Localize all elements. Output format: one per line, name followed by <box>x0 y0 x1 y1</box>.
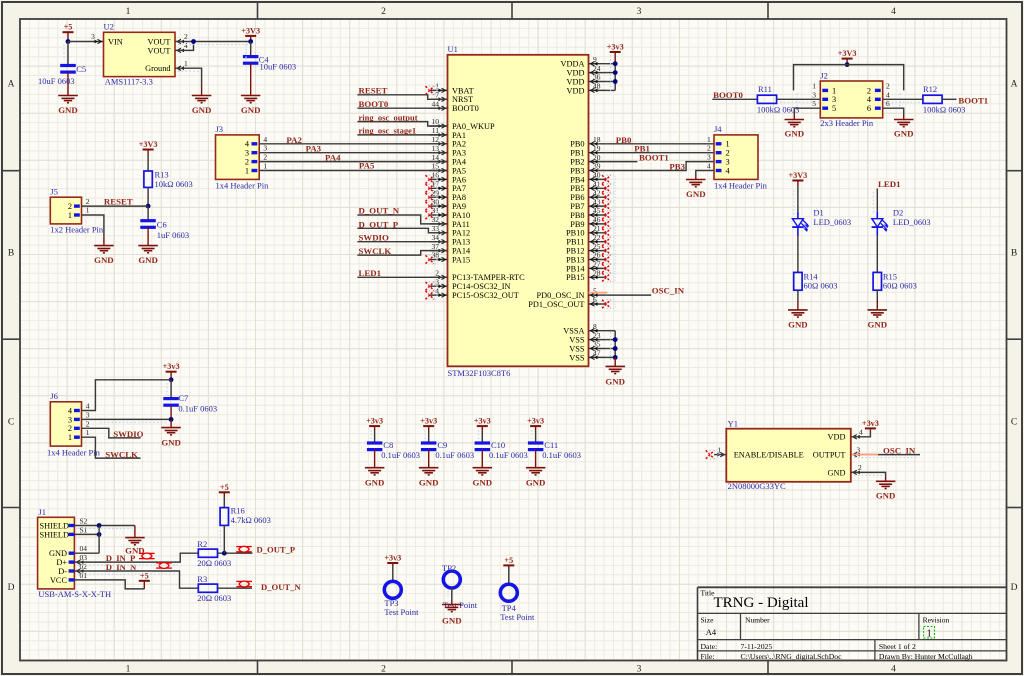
svg-text:C5: C5 <box>76 64 86 74</box>
net label BOOT1 (U1) <box>639 153 669 163</box>
svg-text:File:: File: <box>701 652 715 661</box>
wire BOOT0 to R11 <box>712 98 757 100</box>
wire Y1 VDD to +3v3 <box>851 428 871 437</box>
net label D_OUT_N (U1) <box>359 206 400 216</box>
svg-text:5: 5 <box>812 99 816 108</box>
U1 pin 20 PB2 <box>570 153 606 167</box>
svg-text:20Ω 0603: 20Ω 0603 <box>197 593 231 603</box>
value 1x4 Header Pin (J4) <box>714 180 768 190</box>
U1 pin 29 PA8 <box>426 188 467 202</box>
svg-text:3: 3 <box>263 144 267 153</box>
power +3v3 (U1 VDD) <box>607 43 624 64</box>
power +3v3 (C10) <box>474 417 491 431</box>
svg-text:PA6: PA6 <box>452 175 466 184</box>
net label PA4 <box>325 153 341 163</box>
resistor R15 <box>873 271 917 290</box>
svg-text:ENABLE/DISABLE: ENABLE/DISABLE <box>734 451 804 460</box>
svg-text:C: C <box>8 418 14 428</box>
svg-text:BOOT1: BOOT1 <box>958 96 988 106</box>
test point TP2 <box>442 563 478 610</box>
U1 pin 5 PD0_OSC_IN <box>537 286 607 300</box>
diode D2 <box>872 189 931 236</box>
svg-text:R2: R2 <box>197 539 207 549</box>
svg-text:40: 40 <box>593 171 601 180</box>
svg-text:A: A <box>1011 80 1018 90</box>
svg-text:2: 2 <box>184 32 188 41</box>
ground J2 pin5 <box>785 115 805 139</box>
wire PA3 <box>259 152 447 154</box>
svg-text:GND: GND <box>828 468 846 477</box>
U1 pin 16 PA6 <box>426 171 467 185</box>
svg-text:33: 33 <box>432 224 440 233</box>
svg-text:SWDIO: SWDIO <box>359 233 389 243</box>
svg-text:1x4 Header Pin: 1x4 Header Pin <box>47 448 101 458</box>
ground C4 <box>241 96 261 115</box>
U1 pin 1 VBAT <box>426 82 474 96</box>
svg-text:+3V3: +3V3 <box>838 49 857 58</box>
value 2N08000G33YC <box>728 481 786 491</box>
svg-text:3: 3 <box>637 665 642 675</box>
net label PA2 <box>286 135 302 145</box>
svg-text:6: 6 <box>593 295 597 304</box>
U1 pin 41 PB5 <box>570 180 615 194</box>
svg-text:PB0: PB0 <box>570 140 584 149</box>
compile diff marks <box>64 45 920 599</box>
svg-text:Drawn By: Hunter McCullagh: Drawn By: Hunter McCullagh <box>879 652 973 661</box>
U1 pin 48 VDD <box>567 82 607 96</box>
svg-text:46: 46 <box>593 215 601 224</box>
wire PA5 <box>259 170 447 172</box>
highlight OSC_IN (PD0) <box>589 292 608 294</box>
wire R11 to J2 pin3 <box>777 98 821 100</box>
svg-text:GND: GND <box>785 129 805 139</box>
wire J4 pin4 to gnd <box>696 171 714 175</box>
svg-text:Date:: Date: <box>701 642 718 651</box>
wire PB3 to J4 <box>606 162 715 171</box>
svg-text:RESET: RESET <box>359 86 388 96</box>
wire PB1 to J4 <box>606 152 715 154</box>
svg-text:3: 3 <box>856 445 860 454</box>
svg-text:R11: R11 <box>758 84 772 94</box>
svg-text:PD1_OSC_OUT: PD1_OSC_OUT <box>528 300 584 309</box>
svg-text:14: 14 <box>432 153 440 162</box>
U1 pin 14 PA4 <box>430 153 467 167</box>
net label SWDIO (U1) <box>359 233 389 243</box>
designator J6 <box>50 391 58 401</box>
svg-text:10uF 0603: 10uF 0603 <box>260 62 297 72</box>
svg-text:LED_0603: LED_0603 <box>813 217 851 227</box>
U1 pin 34 PA13 <box>430 233 470 247</box>
power +3V3 (R13) <box>139 140 158 155</box>
svg-text:+3v3: +3v3 <box>474 417 491 426</box>
power +3v3 (C7) <box>163 362 180 380</box>
svg-text:36: 36 <box>593 73 601 82</box>
resistor R11 <box>757 84 799 115</box>
svg-text:20: 20 <box>593 153 601 162</box>
usb connector J1 <box>38 517 88 589</box>
svg-text:3: 3 <box>726 158 730 167</box>
value 1x4 Header Pin (J3) <box>216 180 270 190</box>
U1 pin 43 PB7 <box>570 197 615 211</box>
net label LED1 (U1) <box>359 268 382 278</box>
net label PB1 <box>634 144 650 154</box>
svg-text:D_OUT_P: D_OUT_P <box>359 219 399 229</box>
svg-text:+3v3: +3v3 <box>607 43 624 52</box>
svg-text:42: 42 <box>593 188 601 197</box>
resistor R13 <box>144 155 193 189</box>
U1 pin 38 PA15 <box>426 251 471 265</box>
U1 pin 40 PB4 <box>570 171 615 185</box>
svg-text:PA13: PA13 <box>452 238 470 247</box>
svg-text:1x4 Header Pin: 1x4 Header Pin <box>216 180 270 190</box>
capacitor C11 <box>528 431 581 468</box>
U1 pin 36 VDD <box>567 73 607 87</box>
ground C11 <box>526 468 546 488</box>
svg-text:4: 4 <box>886 90 890 99</box>
U1 pin 21 PB10 <box>566 224 615 238</box>
resistor R3 <box>197 574 231 603</box>
junction R16/R2 <box>222 551 227 556</box>
svg-text:PC15-OSC32_OUT: PC15-OSC32_OUT <box>452 291 519 300</box>
wire SWCLK to PA14 <box>357 251 447 256</box>
power +3v3 (C8) <box>366 417 383 431</box>
U1 pin 44 BOOT0 <box>430 99 479 113</box>
svg-text:VDD: VDD <box>567 86 585 95</box>
net label ring_osc_output <box>359 112 418 122</box>
svg-text:VDD: VDD <box>567 77 585 86</box>
svg-text:1x4 Header Pin: 1x4 Header Pin <box>714 180 768 190</box>
svg-text:10uF 0603: 10uF 0603 <box>38 76 75 86</box>
wire R15 to gnd <box>876 290 878 301</box>
power +3v3 (Y1) <box>862 419 879 431</box>
wire J6 pin3 to C7 <box>82 418 172 420</box>
svg-text:TP2: TP2 <box>442 563 456 573</box>
svg-text:3: 3 <box>86 410 90 419</box>
svg-text:GND: GND <box>241 105 261 115</box>
net label ring_osc_stage1 <box>359 126 417 136</box>
power +5 (R16) <box>219 483 230 497</box>
net label D_OUT_N <box>261 582 301 592</box>
net label RESET (J5) <box>104 197 133 207</box>
value 1x2 Header Pin <box>50 225 104 235</box>
svg-text:100kΩ 0603: 100kΩ 0603 <box>757 105 799 115</box>
junction +5 node <box>66 39 71 44</box>
svg-text:OSC_IN: OSC_IN <box>883 445 916 455</box>
wire Y1 GND <box>851 463 886 477</box>
ground C9 <box>419 468 439 488</box>
wire R12 to BOOT1 <box>942 98 956 100</box>
svg-text:43: 43 <box>593 197 601 206</box>
designator U2 <box>104 22 114 32</box>
svg-text:+5: +5 <box>504 556 513 565</box>
U1 pin 13 PA3 <box>430 144 466 158</box>
wire R2 to D_OUT_P <box>218 552 253 554</box>
svg-text:2: 2 <box>435 269 439 278</box>
svg-text:1: 1 <box>717 445 721 454</box>
svg-text:GND: GND <box>868 320 888 330</box>
svg-text:+5: +5 <box>220 483 229 492</box>
svg-text:+5: +5 <box>140 571 149 580</box>
svg-text:PA5: PA5 <box>452 166 466 175</box>
svg-text:SWCLK: SWCLK <box>359 246 392 256</box>
svg-text:Y1: Y1 <box>728 419 738 429</box>
net label D_OUT_P <box>257 545 296 555</box>
capacitor C6 <box>140 206 189 246</box>
svg-text:11: 11 <box>432 126 439 135</box>
svg-text:100kΩ 0603: 100kΩ 0603 <box>923 105 965 115</box>
ground C5 <box>58 96 78 115</box>
svg-text:44: 44 <box>432 99 440 108</box>
net label D_IN_P <box>106 553 136 563</box>
U1 pin 6 PD1_OSC_OUT <box>528 295 615 309</box>
voltage regulator U2 <box>91 32 188 77</box>
net label LED1 (D2) <box>878 179 901 189</box>
designator Y1 <box>728 419 738 429</box>
svg-text:R13: R13 <box>155 170 169 180</box>
svg-text:7-11-2025: 7-11-2025 <box>741 642 773 651</box>
svg-text:GND: GND <box>473 477 493 487</box>
junction S1 <box>97 532 102 537</box>
svg-text:PB6: PB6 <box>570 193 584 202</box>
svg-text:PB15: PB15 <box>566 273 584 282</box>
svg-text:2: 2 <box>707 144 711 153</box>
svg-text:24: 24 <box>593 64 601 73</box>
svg-text:PA15: PA15 <box>452 255 470 264</box>
svg-text:+5: +5 <box>64 23 73 32</box>
svg-text:GND: GND <box>526 477 546 487</box>
no-ERC Y1 pin1 <box>706 450 718 459</box>
svg-text:Number: Number <box>745 615 770 624</box>
svg-text:U1: U1 <box>448 44 458 54</box>
wire D1 to R14 <box>797 236 799 273</box>
U1 pin 9 VDDA <box>561 55 607 69</box>
U1 pin 39 PB3 <box>570 162 606 176</box>
svg-text:GND: GND <box>49 549 67 558</box>
svg-text:PC14-OSC32_IN: PC14-OSC32_IN <box>452 282 511 291</box>
svg-text:2: 2 <box>263 153 267 162</box>
diff pair mark D_IN_N <box>156 563 172 569</box>
wire SWDIO to PA13 <box>357 241 447 243</box>
U1 pin 4 PC15-OSC32_OUT <box>426 286 519 300</box>
net label RESET (U1) <box>359 86 388 96</box>
svg-text:4: 4 <box>184 41 188 50</box>
wire BOOT0 to U1 <box>357 107 447 109</box>
svg-text:21: 21 <box>593 224 601 233</box>
wire J1 shield bus <box>98 526 100 554</box>
svg-text:VDDA: VDDA <box>561 60 585 69</box>
junction +3V3 node <box>248 39 253 44</box>
wire PB0 to J4 <box>606 143 715 145</box>
wire ring_osc_output <box>357 122 447 126</box>
svg-text:PA7: PA7 <box>452 184 466 193</box>
svg-text:PB4: PB4 <box>570 175 585 184</box>
svg-text:4: 4 <box>86 402 90 411</box>
power +5 (TP4) <box>503 556 514 569</box>
svg-text:C11: C11 <box>544 440 558 450</box>
svg-text:2: 2 <box>245 158 249 167</box>
junction RESET node <box>146 204 151 209</box>
svg-text:1x2 Header Pin: 1x2 Header Pin <box>50 225 104 235</box>
svg-text:3: 3 <box>707 153 711 162</box>
net label BOOT1 (R12) <box>958 96 988 106</box>
designator J1 <box>38 507 46 517</box>
net label SWCLK (J6) <box>105 449 138 459</box>
ground C8 <box>365 468 385 488</box>
svg-text:2: 2 <box>68 202 72 211</box>
svg-text:VDD: VDD <box>828 433 846 442</box>
svg-text:BOOT0: BOOT0 <box>359 99 389 109</box>
svg-text:GND: GND <box>192 105 212 115</box>
svg-text:J5: J5 <box>50 187 58 197</box>
U1 pin 32 PA11 <box>430 215 470 229</box>
U1 pin 22 PB11 <box>566 233 615 247</box>
svg-text:19: 19 <box>593 144 601 153</box>
svg-text:20Ω 0603: 20Ω 0603 <box>197 558 231 568</box>
svg-text:1: 1 <box>86 206 90 215</box>
svg-text:60Ω 0603: 60Ω 0603 <box>883 281 917 291</box>
ground TP2 <box>442 600 462 626</box>
wire RESET to NRST <box>357 95 447 100</box>
wire VOUT pin2 <box>175 41 251 43</box>
capacitor C5 <box>38 42 86 96</box>
svg-text:PA0_WKUP: PA0_WKUP <box>452 122 495 131</box>
svg-text:PA2: PA2 <box>452 140 466 149</box>
svg-text:0.1uF 0603: 0.1uF 0603 <box>381 450 420 460</box>
svg-text:SHIELD: SHIELD <box>40 530 70 539</box>
svg-text:C10: C10 <box>491 440 505 450</box>
U1 pin 33 PA12 <box>430 224 470 238</box>
svg-text:PA14: PA14 <box>452 247 471 256</box>
U1 pin 31 PA10 <box>426 206 471 220</box>
svg-text:C: C <box>1011 418 1017 428</box>
wire SWDIO stub <box>82 428 141 438</box>
svg-text:3: 3 <box>245 149 249 158</box>
svg-text:27: 27 <box>593 260 601 269</box>
svg-text:J1: J1 <box>38 507 46 517</box>
svg-text:D: D <box>8 583 15 593</box>
svg-text:D_OUT_N: D_OUT_N <box>359 206 400 216</box>
svg-text:2N08000G33YC: 2N08000G33YC <box>728 481 786 491</box>
capacitor C8 <box>367 431 420 468</box>
svg-text:USB-AM-S-X-X-TH: USB-AM-S-X-X-TH <box>38 589 111 599</box>
svg-text:OUTPUT: OUTPUT <box>813 451 846 460</box>
svg-text:47: 47 <box>593 349 601 358</box>
wire SWCLK stub <box>82 437 141 458</box>
svg-text:4: 4 <box>891 665 896 675</box>
svg-text:4: 4 <box>263 135 267 144</box>
designator J5 <box>50 187 58 197</box>
svg-text:0.1uF 0603: 0.1uF 0603 <box>178 404 217 414</box>
svg-text:SHIELD: SHIELD <box>40 521 70 530</box>
wire Y1 OUTPUT <box>851 445 920 454</box>
wire PA2 <box>259 143 447 145</box>
U1 pin 7 NRST <box>430 91 474 105</box>
svg-text:37: 37 <box>432 242 440 251</box>
svg-text:NRST: NRST <box>452 95 473 104</box>
value STM32F103C8T6 <box>448 368 511 378</box>
svg-text:1: 1 <box>726 140 730 149</box>
net label BOOT0 (U1) <box>359 99 389 109</box>
svg-text:+3V3: +3V3 <box>789 171 808 180</box>
svg-text:C9: C9 <box>437 440 447 450</box>
junction C7 top <box>169 377 174 382</box>
junction C7 bottom <box>169 417 174 422</box>
svg-text:TRNG - Digital: TRNG - Digital <box>714 595 809 611</box>
svg-text:2: 2 <box>726 149 730 158</box>
svg-text:PA12: PA12 <box>452 229 470 238</box>
svg-text:D_OUT_P: D_OUT_P <box>257 545 296 555</box>
svg-text:60Ω 0603: 60Ω 0603 <box>804 281 838 291</box>
svg-text:A: A <box>8 80 15 90</box>
svg-text:1: 1 <box>68 433 72 442</box>
wire VDD bus <box>606 61 617 90</box>
svg-text:2: 2 <box>86 197 90 206</box>
svg-text:5: 5 <box>593 286 597 295</box>
svg-text:ring_osc_output: ring_osc_output <box>359 112 418 122</box>
net label PB3 <box>669 162 685 172</box>
svg-text:0.1uF 0603: 0.1uF 0603 <box>435 450 474 460</box>
ground J4 <box>686 175 706 199</box>
svg-text:GND: GND <box>442 616 462 626</box>
svg-text:VIN: VIN <box>108 37 123 46</box>
svg-text:13: 13 <box>432 144 440 153</box>
ground C10 <box>473 468 493 488</box>
svg-text:GND: GND <box>138 255 158 265</box>
svg-text:J4: J4 <box>714 124 722 134</box>
svg-text:2x3 Header Pin: 2x3 Header Pin <box>820 118 874 128</box>
resistor R16 <box>220 497 271 525</box>
svg-text:LED1: LED1 <box>878 179 901 189</box>
value 1x4 Header Pin (J6) <box>47 448 101 458</box>
ground J2 pin6 <box>894 115 914 139</box>
wire J5 pin1 to gnd <box>82 215 104 237</box>
ground C6 <box>138 246 158 265</box>
svg-text:1: 1 <box>126 665 131 675</box>
svg-text:PB2: PB2 <box>570 158 584 167</box>
diode D1 <box>792 186 851 236</box>
wire ring_osc_stage1 <box>357 134 447 136</box>
U1 pin 11 PA1 <box>430 126 466 140</box>
U1 pin 37 PA14 <box>430 242 471 256</box>
net label D_IN_N <box>106 562 137 572</box>
svg-text:BOOT0: BOOT0 <box>452 104 479 113</box>
capacitor C4 <box>243 42 296 96</box>
net label PA5 <box>359 160 375 170</box>
svg-text:Ground: Ground <box>145 64 171 73</box>
wire TP3 <box>392 566 394 581</box>
svg-text:RESET: RESET <box>104 197 133 207</box>
svg-text:32: 32 <box>432 215 440 224</box>
power +3v3 (C11) <box>527 417 544 431</box>
net label SWDIO (J6) <box>113 429 143 439</box>
svg-text:1: 1 <box>263 162 267 171</box>
svg-text:Test Point: Test Point <box>384 607 419 617</box>
resistor R12 <box>923 84 965 115</box>
svg-text:23: 23 <box>593 331 601 340</box>
svg-text:PD0_OSC_IN: PD0_OSC_IN <box>537 291 585 300</box>
svg-text:6: 6 <box>867 104 871 113</box>
svg-text:PA5: PA5 <box>359 160 375 170</box>
wire J1 shield S2 <box>74 525 134 527</box>
svg-text:+3v3: +3v3 <box>420 417 437 426</box>
svg-text:PA4: PA4 <box>452 158 467 167</box>
microcontroller U1 body <box>448 55 589 367</box>
wire R13 to junction <box>147 187 149 206</box>
U1 pin 27 PB14 <box>566 260 615 274</box>
U1 pin 8 VSSA <box>563 322 606 336</box>
svg-text:C7: C7 <box>178 393 188 403</box>
svg-text:R3: R3 <box>197 574 207 584</box>
